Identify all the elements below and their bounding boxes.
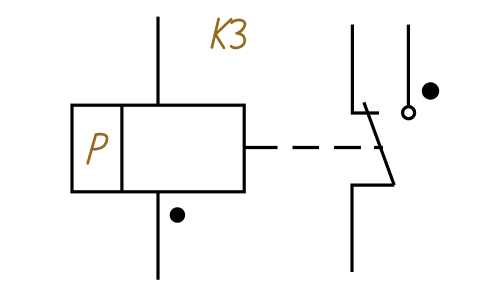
- open contact circle: [403, 107, 415, 119]
- label P (coil winding): [88, 134, 107, 163]
- contact left terminal wire: [352, 25, 379, 114]
- contact blade (switch arm): [364, 102, 394, 185]
- dot near contact: [422, 82, 439, 99]
- junction dot below coil: [170, 207, 185, 222]
- coil box divider: [120, 105, 123, 192]
- wire top of coil: [156, 17, 159, 106]
- relay coil K3 (box): [72, 105, 244, 192]
- label K3: [212, 19, 245, 48]
- contact right terminal wire: [407, 25, 410, 107]
- wire bottom of coil: [156, 192, 159, 280]
- dashed mechanical link wire: [244, 146, 383, 149]
- contact bottom terminal wire: [352, 185, 394, 272]
